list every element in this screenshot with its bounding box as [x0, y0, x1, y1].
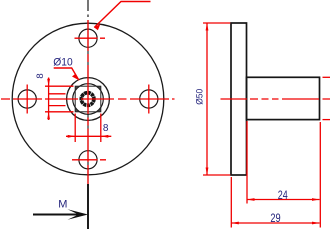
hub right ext stub bottom — [323, 119, 330, 121]
side view hub rect — [247, 77, 320, 119]
datum arrow shaft — [33, 214, 81, 216]
bolt hole bottom — [79, 151, 97, 169]
dim 8 horizontal ext right — [100, 114, 102, 143]
leader to top hole — [94, 2, 150, 28]
dim Ø50 ext bottom — [203, 174, 230, 176]
side view flange rect — [231, 23, 247, 175]
dim 24 line — [247, 199, 320, 201]
ext line flange right face — [246, 121, 248, 204]
square corner fill bottom-left — [75, 107, 79, 111]
dim 8 vertical arrow bottom — [47, 112, 50, 120]
bottom hole horizontal centerline — [72, 159, 106, 161]
dim 8 horizontal line — [66, 135, 111, 137]
dim 8 vertical arrow top — [47, 79, 50, 87]
dim 24 arrow right — [312, 198, 320, 201]
leader Ø10 arrowhead — [72, 74, 79, 81]
dim Ø50 arrow bottom — [206, 168, 209, 176]
leader Ø10 underline — [54, 68, 79, 80]
hub outer circle — [67, 78, 110, 121]
dim 24 arrow left — [247, 198, 255, 201]
datum arrowhead — [68, 209, 89, 220]
svg-text:24: 24 — [278, 190, 288, 202]
vertical centerline black top — [87, 0, 89, 17]
square corner fill top-right — [96, 86, 100, 90]
bolt hole left — [18, 90, 36, 108]
svg-text:29: 29 — [270, 213, 280, 225]
ext line flange left face — [230, 177, 232, 228]
hub circle Ø10 — [73, 84, 104, 115]
ext line hub right end — [319, 122, 321, 228]
dim 29 line — [231, 222, 319, 224]
dim 8 ext line bottom — [45, 111, 74, 113]
dim 29 arrow left — [231, 222, 239, 225]
dim 8 horizontal arrow left — [68, 135, 76, 138]
dim 8 vertical line — [48, 78, 50, 121]
dim Ø50 arrow top — [206, 23, 209, 31]
svg-text:8: 8 — [103, 123, 109, 134]
bolt hole top — [79, 29, 97, 47]
dim 8 horizontal ext left — [74, 114, 76, 143]
datum line vertical — [87, 184, 89, 229]
leader arrowhead top hole — [94, 24, 100, 31]
vertical centerline red — [87, 20, 89, 186]
dim 29 arrow right — [312, 222, 320, 225]
stub line upper — [49, 93, 66, 95]
svg-text:Ø10: Ø10 — [53, 57, 72, 69]
stub line lower — [49, 105, 66, 107]
horizontal centerline red — [1, 98, 175, 100]
dim 8 ext line top — [45, 85, 74, 87]
svg-text:8: 8 — [35, 73, 46, 78]
square corner fill top-left — [75, 86, 79, 90]
center hole ring outer — [81, 93, 94, 106]
bolt hole right — [140, 90, 158, 108]
hub right ext stub top — [323, 76, 330, 78]
square corner fill bottom-right — [96, 107, 100, 111]
dim 8 horizontal arrow right — [101, 135, 109, 138]
svg-text:M: M — [58, 198, 67, 210]
flange outer circle (front view, Ø50) — [12, 23, 164, 175]
square socket — [75, 86, 101, 112]
right hole vertical centerline — [148, 85, 150, 114]
dim Ø50 line — [206, 23, 208, 175]
side view centerline — [221, 98, 330, 100]
top hole horizontal centerline — [75, 37, 106, 39]
dim Ø50 ext top — [203, 22, 230, 24]
left hole vertical centerline — [26, 85, 28, 114]
svg-text:Ø50: Ø50 — [195, 89, 205, 105]
vertical centerline black underlay — [87, 20, 89, 186]
center hole ring inner — [81, 93, 94, 106]
